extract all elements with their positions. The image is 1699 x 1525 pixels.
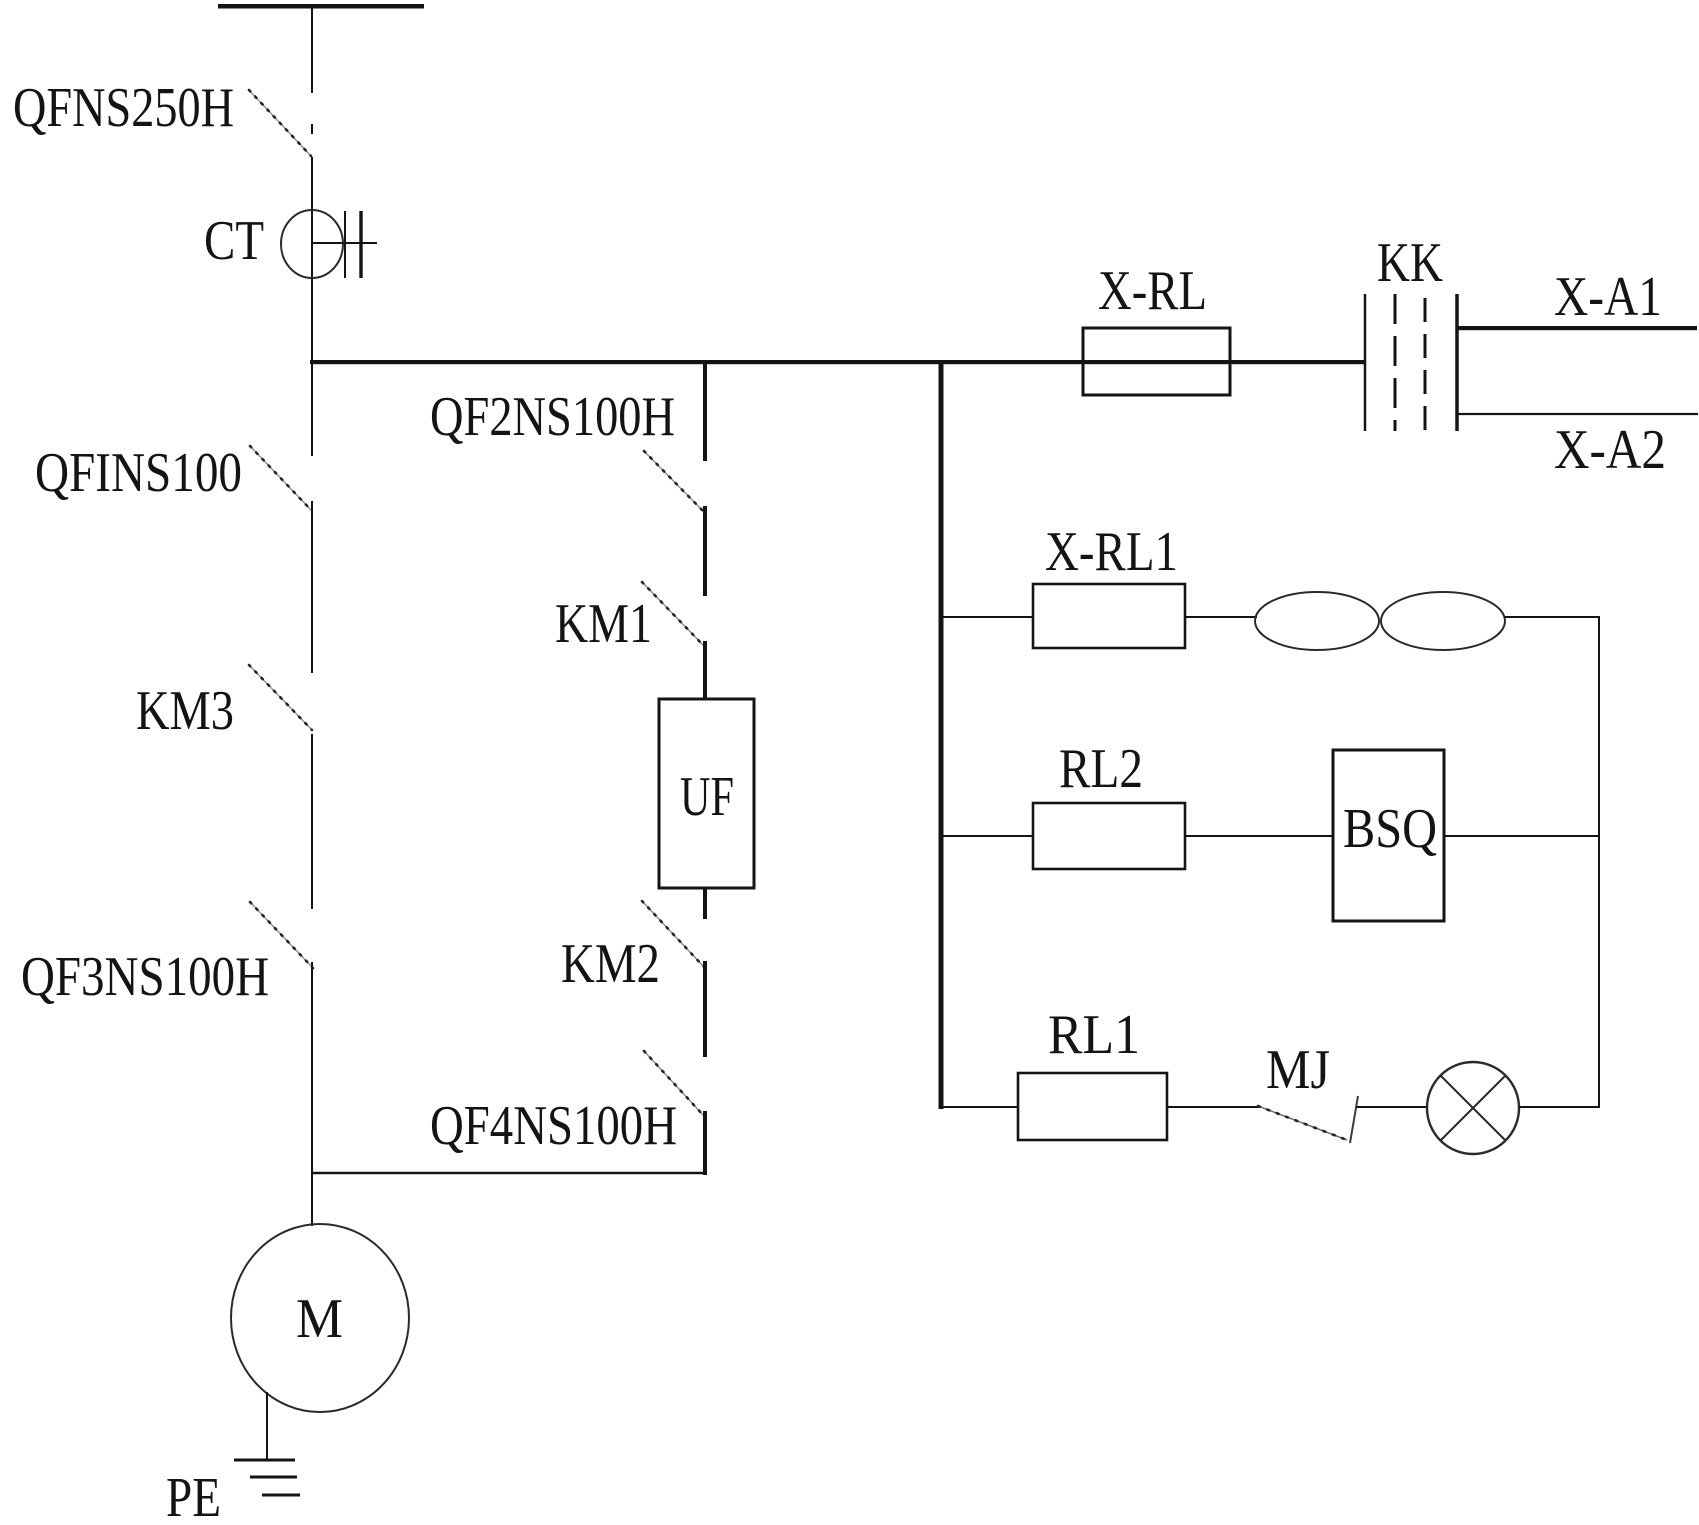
fuse RL1 (1018, 1073, 1167, 1140)
inverter UF (659, 699, 754, 888)
label KM3 (136, 680, 234, 742)
ground PE (234, 1460, 300, 1495)
contactor KM3 (249, 665, 312, 730)
breaker QFINS100 (250, 446, 312, 511)
wire: outgoing X-A2 (1458, 413, 1698, 415)
wire: auxiliary feeder tap (thick) (939, 360, 944, 1109)
wire: lamp to right riser (1519, 1106, 1600, 1108)
wire: outgoing X-A1 (1458, 326, 1697, 330)
label CT (204, 210, 264, 272)
svg-text:MJ: MJ (1266, 1039, 1330, 1101)
wire: BSQ to right riser (1444, 835, 1600, 837)
svg-text:QF3NS100H: QF3NS100H (21, 946, 269, 1008)
contactor KM1 (642, 582, 704, 646)
svg-text:RL2: RL2 (1059, 738, 1143, 800)
wire: breaker to CT and down (311, 157, 313, 456)
svg-text:QFINS100: QFINS100 (35, 442, 242, 504)
supply bus bar (top) (218, 4, 424, 9)
svg-text:KM2: KM2 (561, 933, 660, 995)
label KM1 (555, 593, 652, 655)
label QF2NS100H (430, 386, 675, 448)
breaker QF4NS100H (644, 1051, 704, 1116)
contactor KM2 (642, 901, 704, 967)
wire: motor to earth (266, 1392, 268, 1461)
breaker QF3NS100H (250, 902, 313, 968)
breaker QF2NS100H (644, 451, 704, 512)
fuse X-RL (1083, 328, 1230, 395)
label KM2 (561, 933, 660, 995)
svg-text:M: M (296, 1288, 343, 1350)
wire: right riser (1598, 616, 1600, 1108)
label MJ (1266, 1039, 1330, 1101)
wire: KM3 to QF3 (311, 734, 313, 909)
svg-text:QF4NS100H: QF4NS100H (430, 1095, 677, 1157)
wire: KM2 to QF4 (703, 961, 707, 1057)
label QF3NS100H (21, 946, 269, 1008)
current transformer CT (281, 210, 377, 278)
switch KK (1365, 294, 1457, 431)
wire: transducer branch left (941, 835, 1034, 837)
indicator lamp (1427, 1062, 1519, 1154)
wire: bypass branch drop from main bus (703, 360, 707, 461)
wire: RL2 to BSQ (1185, 835, 1333, 837)
label QFINS100 (35, 442, 242, 504)
wire: fuse to meter coils (1185, 616, 1257, 618)
wire: incomer drop from supply bus (311, 8, 313, 93)
contact MJ (1258, 1096, 1358, 1143)
svg-text:QFNS250H: QFNS250H (13, 77, 234, 139)
label X-A2 (1554, 419, 1666, 481)
breaker QFNS250H (249, 90, 312, 156)
label RL2 (1059, 738, 1143, 800)
wire: MJ to lamp (1356, 1106, 1428, 1108)
wire: RL1 to MJ contact (1167, 1106, 1261, 1108)
svg-text:QF2NS100H: QF2NS100H (430, 386, 675, 448)
wire: UF to KM2 (703, 888, 707, 919)
svg-text:KK: KK (1377, 232, 1443, 294)
svg-text:KM3: KM3 (136, 680, 234, 742)
fuse RL2 (1033, 803, 1185, 869)
svg-text:X-A1: X-A1 (1554, 266, 1662, 328)
label X-RL1 (1045, 521, 1178, 583)
motor M (231, 1224, 409, 1412)
svg-text:X-A2: X-A2 (1554, 419, 1666, 481)
svg-text:X-RL: X-RL (1098, 260, 1207, 322)
wire: QFINS100 to KM3 (311, 501, 313, 673)
meter coil 1 (1255, 592, 1379, 650)
label PE (166, 1467, 221, 1525)
svg-text:UF: UF (680, 766, 734, 828)
wire: bottom tie from motor feeder to bypass branch (311, 1172, 706, 1174)
svg-text:KM1: KM1 (555, 593, 652, 655)
wire: meter coils to right riser (1504, 616, 1600, 618)
label X-RL (1098, 260, 1207, 322)
label X-A1 (1554, 266, 1662, 328)
transducer BSQ (1333, 750, 1444, 921)
wire: metering branch left (941, 616, 1034, 618)
svg-text:BSQ: BSQ (1343, 798, 1437, 860)
label QFNS250H (13, 77, 234, 139)
wire: KM1 to UF (703, 641, 707, 699)
svg-text:X-RL1: X-RL1 (1045, 521, 1178, 583)
svg-text:CT: CT (204, 210, 264, 272)
label RL1 (1048, 1004, 1140, 1066)
label KK (1377, 232, 1443, 294)
fuse X-RL1 (1033, 584, 1185, 648)
label QF4NS100H (430, 1095, 677, 1157)
svg-text:RL1: RL1 (1048, 1004, 1140, 1066)
main bus (310, 360, 1366, 364)
wire: lamp branch left (941, 1106, 1018, 1108)
meter coil 2 (1381, 592, 1505, 650)
wire: QF2 to KM1 (703, 506, 707, 596)
wire: QF4 to bottom tie (703, 1111, 707, 1175)
wire: QF3 down to motor (311, 962, 313, 1226)
svg-text:PE: PE (166, 1467, 221, 1525)
